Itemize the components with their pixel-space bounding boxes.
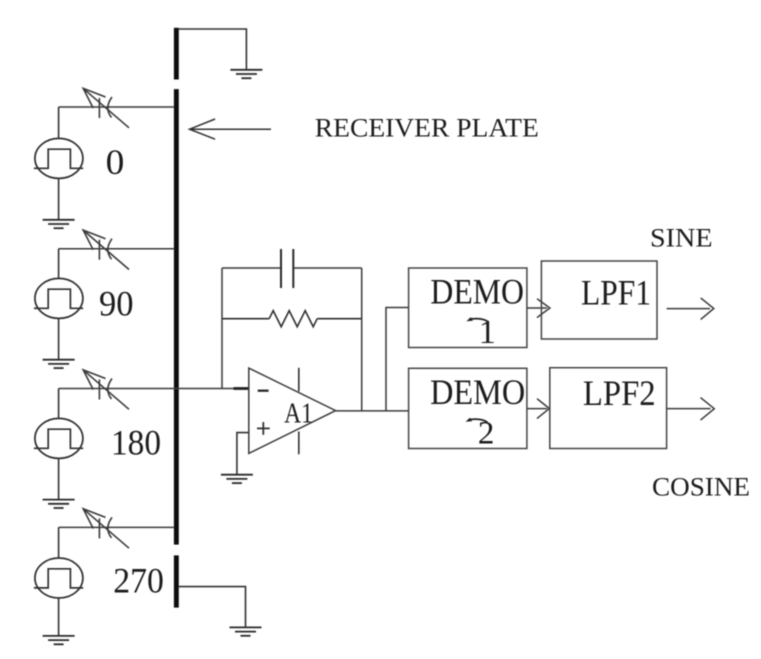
non-inverting input wire	[237, 433, 249, 475]
wire plate-top to ground	[179, 29, 247, 70]
svg-text:0: 0	[106, 142, 125, 182]
svg-text:DEMO: DEMO	[430, 272, 524, 312]
svg-text:A1: A1	[284, 398, 313, 429]
resistor R1 zigzag	[269, 311, 317, 327]
feedback capacitor wires	[222, 267, 362, 269]
ground (top right)	[230, 70, 262, 78]
block LPF2	[550, 368, 667, 449]
ground below V1	[43, 220, 75, 228]
ground below V2	[43, 360, 75, 368]
wire stem source180	[58, 389, 60, 419]
hook ornament 2	[466, 418, 488, 423]
capacitor C5 plates	[281, 249, 293, 288]
wire stem source270	[58, 527, 60, 558]
square-wave source V2	[34, 278, 83, 318]
op-amp A1 triangle	[249, 368, 336, 453]
op-amp power pin top	[298, 368, 300, 392]
wire stem source0	[58, 107, 60, 138]
wire source270 to plate	[59, 526, 174, 528]
variable capacitor C4	[83, 509, 129, 548]
ground (bottom right)	[230, 627, 262, 635]
svg-text:1: 1	[479, 314, 496, 351]
block LPF1	[541, 261, 657, 339]
feedback left vertical wire	[221, 268, 223, 389]
wire source180 to plate and op-amp input	[59, 388, 249, 390]
wire source180 to ground	[58, 458, 60, 499]
svg-text:LPF2: LPF2	[583, 373, 656, 413]
minus sign	[258, 390, 269, 392]
svg-text:180: 180	[111, 422, 161, 462]
variable capacitor C2	[83, 230, 129, 269]
feedback right vertical wire	[361, 268, 363, 411]
branch wire to DEMO1	[386, 308, 409, 411]
square-wave source V1	[34, 138, 83, 178]
op-amp power pin bottom	[298, 432, 300, 455]
output arrow LPF2 (cosine)	[667, 398, 714, 421]
output arrow LPF1 (sine)	[667, 298, 714, 320]
arrow DEMO2 to LPF2	[527, 399, 550, 419]
arrow pointing to receiver plate	[190, 119, 272, 139]
svg-text:2: 2	[478, 416, 495, 452]
svg-text:DEMO: DEMO	[430, 372, 525, 412]
svg-text:SINE: SINE	[650, 223, 713, 252]
arrow DEMO1 to LPF1	[527, 299, 550, 318]
output wire of op-amp	[336, 410, 409, 412]
svg-text:270: 270	[113, 561, 164, 601]
wire source270 to ground	[58, 598, 60, 636]
wire plate-bottom to ground	[179, 587, 246, 628]
ground below V4	[43, 636, 75, 644]
square-wave source V3	[34, 418, 83, 458]
wire source90 to ground	[58, 318, 60, 359]
svg-text:COSINE: COSINE	[652, 472, 750, 501]
block DEMO1	[409, 268, 527, 348]
ground below op-amp	[221, 475, 253, 483]
wire stem source90	[58, 249, 60, 279]
svg-text:RECEIVER PLATE: RECEIVER PLATE	[315, 113, 539, 142]
inverting input stub (thicker)	[234, 387, 249, 390]
wire source0 to ground	[58, 178, 60, 219]
hook ornament 1	[466, 317, 488, 322]
square-wave source V4	[34, 558, 83, 598]
variable capacitor C1	[83, 88, 129, 127]
wire source90 to plate	[59, 248, 174, 250]
receiver plate (thick electrode bar, 3 segments)	[174, 28, 179, 608]
variable capacitor C3	[83, 370, 129, 409]
wire source0 to plate	[59, 106, 174, 108]
svg-text:LPF1: LPF1	[581, 273, 651, 313]
svg-text:90: 90	[99, 284, 134, 324]
ground below V3	[43, 500, 75, 508]
plus sign	[257, 422, 270, 435]
resistor R1 wires	[222, 318, 362, 320]
block DEMO2	[409, 368, 527, 448]
